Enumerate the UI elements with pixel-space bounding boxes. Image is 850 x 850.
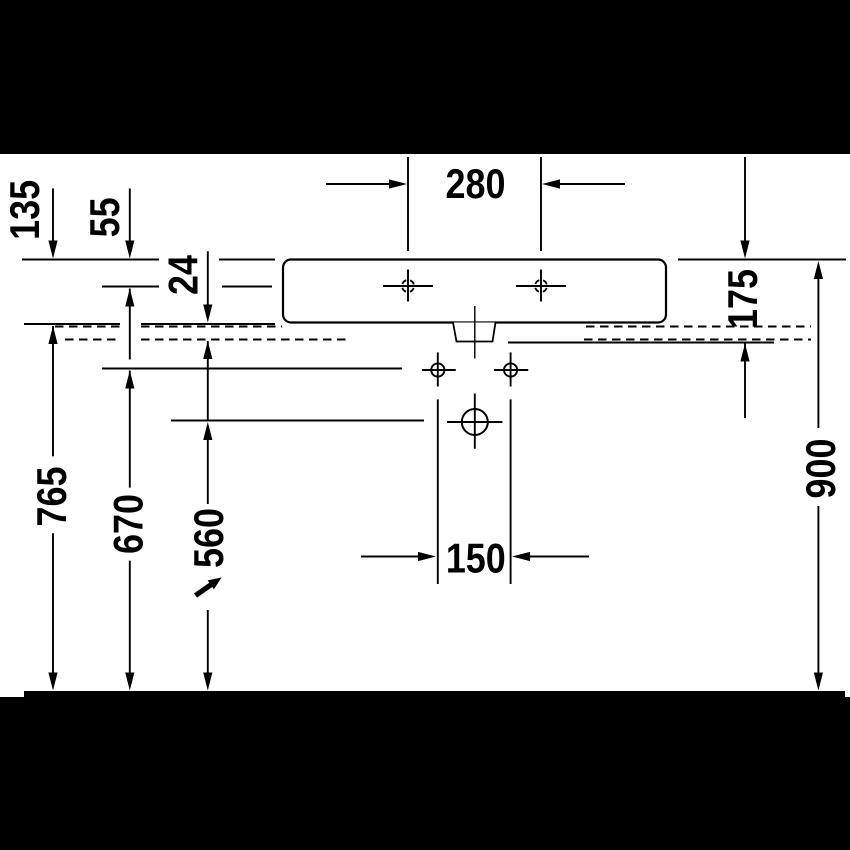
line yA top reference 259.5 [22, 259, 159, 261]
line yG holes axis 368.5 [102, 368, 402, 370]
drain center line [474, 306, 476, 359]
svg-text:150: 150 [446, 536, 506, 582]
dashed wall line yE 339.5 [65, 339, 120, 341]
svg-text:135: 135 [3, 180, 49, 240]
faucet hole right [516, 270, 566, 302]
dimension 55/670 line x=129.8 [129, 188, 131, 674]
line yF solid 342.5 [508, 342, 774, 344]
150 extension lines [438, 399, 511, 584]
svg-text:175: 175 [720, 269, 766, 329]
mounting hole right [494, 352, 528, 386]
svg-text:560: 560 [186, 508, 232, 568]
bottom black band [0, 697, 850, 850]
line yH large hole axis 420.5 [171, 420, 424, 422]
svg-text:900: 900 [798, 439, 844, 499]
faucet hole left [383, 270, 433, 302]
280 arrows [326, 183, 625, 185]
top black band [0, 0, 850, 154]
dimension 900 line x=818.4 [817, 278, 819, 674]
mounting hole left [422, 352, 456, 386]
line yC solid 324 [24, 323, 120, 325]
dimension 24/560 line x=207.8 [207, 251, 209, 674]
dimension 135/765 line x=53 [52, 188, 54, 674]
svg-text:765: 765 [29, 467, 75, 527]
washbasin outline [283, 260, 666, 323]
dimension 175 line x=745 [744, 157, 746, 418]
drain trapezoid [453, 323, 496, 342]
drain hole large [447, 394, 502, 449]
svg-text:280: 280 [446, 161, 506, 207]
dashed wall line yD 326.5 [55, 326, 120, 328]
svg-text:55: 55 [82, 197, 128, 237]
svg-text:670: 670 [106, 494, 152, 554]
150 arrows [361, 556, 589, 558]
line yB faucet axis 286.5 [102, 286, 159, 288]
slanted arrow near 560 [194, 578, 222, 598]
dimension 280 extension lines [408, 157, 541, 251]
floor bar [24, 691, 845, 700]
svg-text:24: 24 [161, 255, 207, 295]
